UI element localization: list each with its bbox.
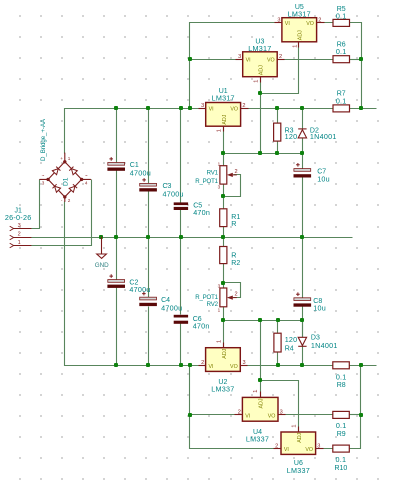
svg-text:VI: VI (245, 413, 250, 419)
svg-text:3: 3 (218, 184, 221, 189)
svg-text:1: 1 (68, 156, 71, 161)
svg-text:2: 2 (235, 169, 238, 175)
svg-text:1: 1 (292, 45, 298, 48)
svg-text:4700u: 4700u (129, 285, 150, 294)
svg-text:3: 3 (277, 18, 280, 24)
svg-text:2: 2 (318, 18, 321, 24)
svg-text:120: 120 (285, 335, 298, 344)
svg-text:10u: 10u (313, 304, 326, 313)
svg-text:3: 3 (42, 181, 45, 186)
svg-text:+: + (60, 156, 63, 161)
svg-text:R_POT1: R_POT1 (195, 294, 218, 301)
svg-text:1: 1 (218, 307, 221, 312)
svg-text:LM337: LM337 (211, 384, 234, 393)
svg-text:VO: VO (268, 413, 276, 419)
svg-text:R_POT1: R_POT1 (195, 178, 218, 185)
svg-text:26-0-26: 26-0-26 (5, 213, 32, 222)
svg-text:2: 2 (242, 103, 245, 109)
svg-text:1: 1 (217, 340, 223, 343)
svg-text:LM317: LM317 (288, 10, 311, 19)
svg-text:3: 3 (201, 103, 204, 109)
svg-text:2: 2 (279, 54, 282, 60)
svg-text:VI: VI (284, 447, 289, 453)
svg-text:~: ~ (85, 173, 88, 178)
svg-text:R8: R8 (337, 382, 346, 389)
svg-text:VI: VI (209, 107, 214, 113)
svg-text:ADJ: ADJ (298, 30, 304, 40)
svg-text:R10: R10 (334, 465, 347, 472)
svg-text:VI: VI (246, 58, 251, 64)
svg-text:ADJ: ADJ (297, 432, 303, 442)
svg-text:3: 3 (238, 54, 241, 60)
svg-text:1: 1 (291, 424, 297, 427)
svg-text:3: 3 (218, 284, 221, 289)
svg-text:GND: GND (95, 262, 109, 269)
svg-text:1: 1 (18, 240, 21, 246)
svg-text:2: 2 (18, 231, 21, 237)
svg-text:VO: VO (230, 107, 238, 113)
svg-text:R4: R4 (285, 345, 294, 352)
svg-text:4700u: 4700u (161, 303, 182, 312)
svg-text:R2: R2 (231, 260, 240, 267)
svg-text:1N4001: 1N4001 (311, 341, 338, 350)
svg-text:1N4001: 1N4001 (310, 132, 337, 141)
svg-text:ADJ: ADJ (222, 348, 228, 358)
svg-text:3: 3 (280, 410, 283, 416)
svg-text:VO: VO (267, 58, 275, 64)
svg-text:R9: R9 (337, 431, 346, 438)
svg-text:0.1: 0.1 (336, 421, 347, 430)
svg-text:10u: 10u (317, 174, 330, 183)
svg-text:1: 1 (218, 161, 221, 166)
svg-text:VI: VI (209, 364, 214, 370)
svg-text:R: R (231, 251, 236, 260)
svg-text:ADJ: ADJ (259, 398, 265, 408)
svg-text:VO: VO (306, 21, 314, 27)
svg-text:2: 2 (238, 410, 241, 416)
svg-text:0.1: 0.1 (336, 47, 347, 56)
svg-text:0.1: 0.1 (336, 455, 347, 464)
svg-text:470n: 470n (193, 208, 210, 217)
svg-text:R: R (231, 219, 236, 228)
svg-text:0.1: 0.1 (336, 373, 347, 382)
svg-text:RV1: RV1 (207, 170, 219, 177)
svg-text:4700u: 4700u (130, 168, 151, 177)
svg-text:VO: VO (230, 364, 238, 370)
svg-text:D1: D1 (63, 177, 70, 186)
svg-text:3: 3 (317, 443, 320, 449)
svg-text:3: 3 (18, 223, 21, 229)
svg-text:LM337: LM337 (287, 466, 310, 475)
svg-text:1: 1 (217, 129, 223, 132)
svg-text:ADJ: ADJ (222, 114, 228, 124)
svg-text:2: 2 (201, 360, 204, 366)
svg-text:VO: VO (305, 447, 313, 453)
svg-text:4700u: 4700u (163, 189, 184, 198)
svg-text:VI: VI (285, 21, 290, 27)
svg-text:~: ~ (42, 173, 45, 178)
svg-text:2: 2 (275, 443, 278, 449)
svg-text:LM317: LM317 (248, 44, 271, 53)
svg-text:1: 1 (253, 80, 259, 83)
svg-text:ADJ: ADJ (259, 65, 265, 75)
svg-text:0.1: 0.1 (336, 96, 347, 105)
svg-text:2: 2 (235, 292, 238, 298)
svg-text:D_Bridge_+-AA: D_Bridge_+-AA (40, 118, 47, 161)
svg-text:0.1: 0.1 (336, 12, 347, 21)
svg-text:3: 3 (243, 360, 246, 366)
svg-text:4: 4 (85, 181, 88, 186)
svg-text:120: 120 (285, 132, 298, 141)
svg-text:1: 1 (253, 390, 259, 393)
svg-text:LM317: LM317 (212, 94, 235, 103)
svg-text:2: 2 (68, 198, 71, 203)
svg-text:470n: 470n (193, 322, 210, 331)
svg-text:LM337: LM337 (246, 435, 269, 444)
